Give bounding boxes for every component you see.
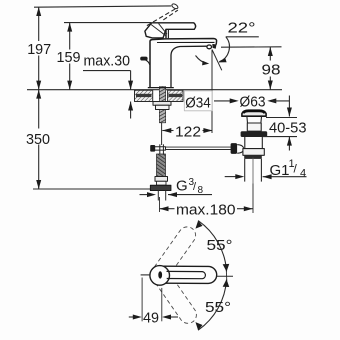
deck dark streak right [169, 94, 183, 97]
G3/8 stud [157, 181, 167, 185]
svg-text:Ø34: Ø34 [185, 95, 211, 112]
svg-text:55°: 55° [207, 237, 233, 254]
dimension 197 vertical line [38, 7, 40, 90]
svg-text:350: 350 [26, 131, 50, 148]
raised lever dashed top [147, 8, 178, 26]
grip inner diagonal 2 [159, 24, 167, 34]
drain body bottom edge [244, 155, 262, 159]
handle inner capsule [167, 271, 206, 278]
spout stub line [141, 274, 150, 276]
wire: 22 underline [226, 36, 259, 38]
wire: G1 1/4 left arrow [225, 176, 240, 178]
svg-text:159: 159 [57, 49, 81, 66]
svg-text:122: 122 [175, 124, 201, 141]
dimension max.30 lower arrow [130, 102, 132, 119]
svg-text:Ø63: Ø63 [240, 93, 266, 110]
wire: 22 leader arc [219, 37, 229, 62]
dimension 350 vertical line [38, 90, 40, 189]
svg-text:22°: 22° [228, 20, 256, 37]
stud tail walls [157, 191, 159, 201]
drain flange cap [242, 110, 266, 116]
faucet base line [148, 87, 174, 89]
pull rod knob [140, 57, 147, 61]
pull rod wire below shank [161, 123, 163, 145]
wire: 197 top extension line [34, 6, 171, 7]
handle axis centerline [217, 275, 233, 277]
max.180 left extension [159, 197, 161, 212]
aerator ring [207, 45, 212, 49]
svg-text:max.180: max.180 [176, 202, 236, 219]
drain tailpipe walls [244, 159, 246, 182]
deck slab hatched left [135, 90, 153, 101]
dashed handle rotated down [155, 273, 200, 326]
wire: G3/8 underline leader [168, 194, 212, 196]
drain neck taper [247, 116, 262, 123]
dimension Ø63 arrow right [267, 98, 276, 103]
drain upper body [247, 123, 261, 131]
max.180 right extension [252, 183, 254, 213]
handle plan outer capsule [164, 266, 217, 283]
flexible supply hose braided [157, 154, 166, 177]
drain rubber seal [241, 131, 268, 137]
dimension 98 vertical [269, 47, 271, 90]
aerator dark tab [212, 44, 216, 49]
wire: G1 1/4 underline leader [263, 176, 307, 178]
dimension 122 line right [203, 130, 213, 132]
drain centerline [252, 158, 254, 184]
dimension Ø63 arrow left [214, 100, 235, 102]
drain collar [243, 149, 264, 156]
svg-text:197: 197 [27, 41, 51, 58]
cross fitting left knob [150, 145, 155, 152]
wide lock nut [150, 185, 171, 190]
svg-text:55°: 55° [205, 299, 231, 316]
deck slab hatched right [168, 90, 183, 101]
dimension 122 line left [162, 130, 173, 132]
wire: G3/8 left arrow [140, 194, 152, 196]
handle rotation arc lower [198, 280, 226, 331]
dimension 40-53 upper [288, 96, 290, 117]
faucet body and spout outline [150, 39, 217, 88]
dashed handle rotated up [154, 223, 199, 276]
svg-text:/: / [193, 181, 197, 193]
dimension 159 vertical line [69, 23, 71, 90]
svg-text:4: 4 [300, 168, 306, 180]
body right curve to spout underside [171, 46, 207, 87]
angle arc left segment [196, 56, 207, 64]
dimension 98 top extension [221, 46, 282, 48]
svg-text:98: 98 [262, 62, 281, 79]
dimension max.30 upper arrow [130, 71, 132, 90]
pivot joint [237, 145, 243, 154]
pull rod knob hook [146, 60, 150, 65]
wire: 40-53 ext bottom [263, 136, 297, 138]
wire: 40-53 ext top [266, 117, 297, 119]
dimension 40-53 lower [288, 137, 290, 151]
svg-text:/: / [294, 162, 298, 176]
cross fitting [154, 147, 166, 150]
drain cap dark top [243, 111, 265, 113]
lever dome edge [167, 29, 169, 38]
wire: 159 extension line [64, 22, 152, 24]
raised lever dashed bottom [163, 10, 178, 20]
lever bar solid [152, 23, 196, 39]
pop-up rod horizontal [166, 146, 232, 148]
grip inner diagonal 1 [151, 24, 166, 35]
washer below deck [153, 102, 171, 106]
wire: spout tip vertical leader [211, 50, 213, 134]
handle pivot circle [150, 266, 170, 286]
wire: deck datum line [27, 89, 282, 91]
deck dark streak left [136, 94, 152, 97]
drain pivot knob [231, 143, 238, 154]
dimension max.180 [160, 208, 175, 210]
wire: 350 bottom reference line [33, 188, 151, 190]
drain lower body [245, 137, 262, 149]
svg-text:40-53: 40-53 [269, 119, 307, 136]
svg-text:max.30: max.30 [84, 53, 131, 70]
pivot dark dot [158, 271, 162, 278]
wire: 22 degree slanted stream line [212, 50, 222, 71]
cross fitting vertical neck [159, 144, 161, 154]
faucet threaded shank through deck [159, 87, 165, 123]
handle rotation arc upper [198, 221, 226, 272]
lever grip front [145, 23, 166, 38]
svg-text:G: G [176, 178, 188, 195]
Ø34 label box [184, 91, 212, 111]
mounting nut [156, 105, 170, 109]
svg-text:49: 49 [143, 310, 159, 327]
spout bar bottom line [157, 41, 215, 43]
dimension 49 [141, 278, 143, 322]
raised lever tip cap [171, 3, 179, 10]
wire: max.30 leader underline [83, 70, 131, 72]
hose lower nut [155, 177, 168, 182]
